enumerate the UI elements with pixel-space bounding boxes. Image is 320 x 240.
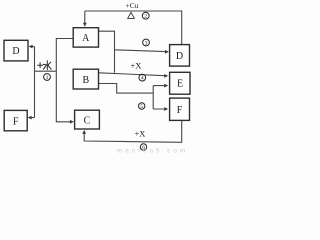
svg-text:4: 4	[141, 76, 144, 82]
svg-text:1: 1	[46, 75, 49, 81]
svg-text:D: D	[12, 46, 19, 57]
svg-text:C: C	[84, 115, 91, 126]
svg-text:manfen5.com: manfen5.com	[117, 148, 188, 155]
svg-text:F: F	[177, 105, 183, 116]
svg-text:3: 3	[145, 41, 148, 47]
svg-text:2: 2	[144, 14, 147, 20]
svg-text:A: A	[82, 33, 90, 44]
svg-text:B: B	[82, 75, 89, 86]
svg-text:5: 5	[140, 104, 143, 110]
svg-text:+X: +X	[135, 129, 146, 139]
svg-text:D: D	[176, 51, 183, 62]
svg-text:E: E	[177, 79, 183, 90]
svg-text:+X: +X	[131, 61, 142, 71]
svg-text:F: F	[13, 116, 19, 127]
svg-text:+Cu: +Cu	[126, 1, 139, 10]
